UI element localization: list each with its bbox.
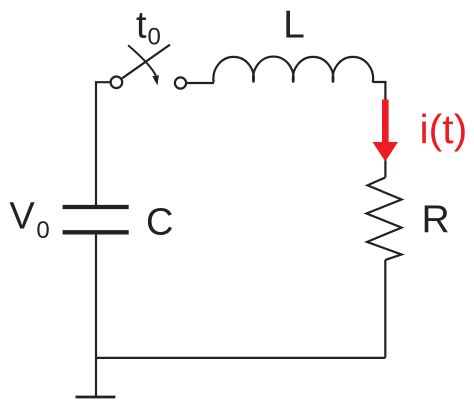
svg-text:0: 0	[148, 23, 161, 50]
switch left contact circle	[111, 77, 123, 89]
switch right contact circle	[175, 77, 186, 88]
wire top-left corner to switch left terminal	[96, 82, 111, 205]
svg-text:C: C	[146, 201, 173, 243]
current arrow i(t) head	[373, 142, 399, 162]
svg-text:i(t): i(t)	[420, 106, 468, 152]
capacitor C top plate	[63, 205, 129, 209]
wire arrow tip to resistor	[384, 159, 386, 178]
wire inductor to top-right corner down to arrow	[373, 82, 386, 101]
svg-text:t: t	[136, 4, 147, 46]
capacitor C bottom plate	[63, 230, 129, 234]
svg-text:R: R	[422, 198, 450, 241]
bottom wire	[96, 357, 385, 359]
switch arc arrowhead	[152, 75, 159, 85]
svg-text:0: 0	[36, 217, 49, 244]
current arrow i(t) shaft	[382, 100, 389, 144]
switch actuation arc	[128, 45, 156, 75]
wire switch right terminal to inductor	[187, 82, 214, 84]
inductor L coil	[213, 57, 373, 83]
svg-text:V: V	[9, 196, 35, 238]
wire capacitor bottom to ground	[95, 234, 97, 396]
svg-text:L: L	[283, 4, 305, 47]
ground	[76, 396, 116, 399]
switch arm	[122, 45, 170, 79]
wire resistor to bottom-right corner	[384, 260, 386, 358]
resistor R zigzag	[367, 178, 402, 260]
